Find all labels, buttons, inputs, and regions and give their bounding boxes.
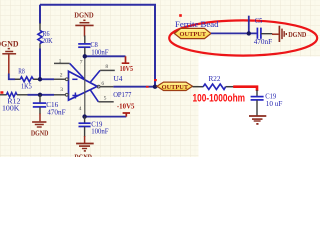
svg-text:Ferrite Bead: Ferrite Bead [175,20,219,29]
wire: C5 to DGND [261,33,272,35]
power port DGND (right of C5, sideways) [272,26,307,42]
svg-text:R22: R22 [209,75,221,83]
red tick on output wire [146,86,149,88]
svg-text:DGND: DGND [288,30,307,39]
schematic sheet background [0,0,320,157]
wire: R22 right lead [226,86,234,88]
svg-text:100-1000ohm: 100-1000ohm [193,93,246,105]
svg-text:R8: R8 [18,68,25,76]
svg-text:3: 3 [60,87,63,93]
ground DGND (below C19) [74,144,93,162]
svg-text:U4: U4 [114,74,123,83]
wire stub up from junction [248,16,250,34]
svg-text:1: 1 [59,59,62,65]
svg-text:7: 7 [80,59,83,65]
svg-text:C5: C5 [255,17,263,25]
ground DGND (below C16) [31,122,49,137]
wire: C19 to ground [84,127,86,137]
wire: C19 to ground [256,100,258,115]
junction: R6 bottom / R8 / pin2 [38,77,42,81]
svg-text:OUTPUT: OUTPUT [162,84,189,91]
wire: DGND stem to R8 left [9,74,15,80]
svg-text:470nF: 470nF [47,109,65,117]
capacitor C19 (10 uF) [251,90,283,108]
svg-text:-10V5: -10V5 [117,103,135,111]
power port 10V5 [120,56,134,73]
resistor R22 (100-1000ohm) [203,75,225,89]
pin 7 / pin 4 vertical line through op-amp [79,56,85,116]
pin 1 (offset) stub + diagonal [54,59,85,80]
svg-text:DGND: DGND [74,153,92,157]
wire: R8 to op-amp pin 2 [39,78,54,80]
pin 5 diagonal + stub [90,89,114,101]
ground (below C19 10uF) [249,116,266,124]
pin 3 stub [54,87,68,96]
power port DGND (top, above C8) [74,11,94,37]
svg-text:100K: 100K [2,105,20,113]
pin 6 output stub [97,81,113,88]
pin 2 stub [54,72,68,80]
wire: C8 to V+ node, node to 10V5 [84,48,86,56]
svg-text:8: 8 [105,64,108,70]
junction: C16 top on pin3 wire [38,93,42,97]
junction: output node [153,85,157,89]
resistor R8 (horizontal, 1K5) [15,68,40,91]
power port -10V5 [117,103,135,117]
wire: R12 to op-amp pin 3 [28,94,55,96]
junction on top output net [247,31,251,35]
svg-text:10V5: 10V5 [120,65,134,73]
junction: C8 / pin7 / 10V5 [83,54,87,58]
svg-text:100nF: 100nF [91,127,108,135]
wire: top port to C5 [211,32,257,34]
red annotation ellipse [169,20,317,55]
svg-text:OP177: OP177 [113,91,132,99]
off-sheet white area (bottom right) [199,57,320,158]
svg-text:DGND: DGND [74,11,94,20]
op-amp U4 (OP177) triangle [69,71,132,100]
svg-text:20K: 20K [42,37,53,45]
wire: port to R22 [193,86,204,88]
wire: left edge to R12 [0,94,7,96]
wire: pin6 to OUTPUT port [113,86,157,88]
minus sign (pin2) [72,78,77,80]
power port DGND (left, above R8) [0,38,19,74]
svg-text:OUTPUT: OUTPUT [180,31,207,38]
svg-text:5: 5 [104,96,107,102]
wire: C16 to ground [39,107,41,114]
plus sign (pin3) [72,93,78,99]
OUTPUT port (bottom) [157,82,193,91]
OUTPUT port (top) [174,28,211,38]
red wire: R22 to C19 (10uF) [233,87,257,91]
wire: pin4 node to C19 and -10V5 [85,116,127,118]
svg-text:DGND: DGND [0,38,19,48]
svg-text:10 uF: 10 uF [266,100,283,108]
pin 8 diagonal + stub [90,64,115,83]
red marker on feedback wire [154,79,157,81]
svg-text:1K5: 1K5 [21,83,32,91]
capacitor C16 (470nF) [33,95,66,117]
capacitor C19 (100nF, below op-amp) [79,117,109,136]
junction: pin4 / C19 [82,114,86,118]
wire: DGND to C8 [84,36,86,44]
svg-text:6: 6 [101,81,104,87]
resistor R12 (horizontal, 100K) [2,93,28,113]
resistor R6 (vertical, 20K) [38,5,53,80]
red marker above Ferrite Bead [179,14,182,17]
capacitor C8 (100nF) [78,41,108,57]
svg-text:DGND: DGND [31,128,49,137]
svg-text:4: 4 [79,106,82,112]
red marker on R12 wire at left edge [0,91,3,93]
svg-text:2: 2 [60,72,63,78]
svg-text:470nF: 470nF [254,38,272,46]
capacitor C5 (470nF) [254,17,272,46]
wire: feedback loop top and right side [40,5,155,87]
